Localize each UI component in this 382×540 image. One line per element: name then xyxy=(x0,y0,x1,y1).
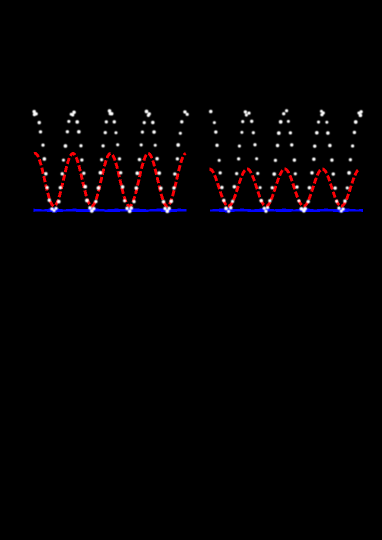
right panel: atom cluster in potential well 1 xyxy=(224,206,232,213)
right panel: atom chain (white dots) on lattice site 2 xyxy=(231,110,263,203)
left panel: atom cluster in potential well 4 xyxy=(163,207,171,213)
left panel: condensate density profile (blue line) xyxy=(33,208,186,213)
left panel: atom chain (white dots) on lattice site 2 xyxy=(57,110,89,203)
left panel: atom chain (white dots) on lattice site 3 xyxy=(94,109,126,203)
right panel: atom chain (white dots) on lattice site 1 xyxy=(209,110,225,202)
left panel: atom cluster in potential well 3 xyxy=(125,206,133,213)
right panel: atom chain (white dots) on lattice site 3 xyxy=(268,109,300,202)
right panel: atom cluster in potential well 4 xyxy=(337,206,344,212)
left panel: atom cluster in potential well 1 xyxy=(50,207,57,212)
left panel: atom chain (white dots) on lattice site 5 xyxy=(169,110,188,203)
left panel: atom cluster in potential well 2 xyxy=(88,206,95,213)
right panel: atom chain (white dots) on lattice site 4 xyxy=(307,110,339,204)
right panel: optical-lattice potential curve (red dashed sinusoid) xyxy=(209,169,360,206)
right panel: atom chain (white dots) on lattice site 5 xyxy=(343,110,363,203)
left panel: atom chain (white dots) on lattice site 4 xyxy=(132,110,165,204)
right panel: atom cluster in potential well 2 xyxy=(263,206,270,213)
left panel: optical-lattice potential curve (red dashed sinusoid) xyxy=(34,154,186,207)
left panel: atom chain (white dots) on lattice site 1 xyxy=(32,110,51,202)
right panel: condensate density profile (blue line) xyxy=(210,208,363,213)
right panel: atom cluster in potential well 3 xyxy=(300,207,307,213)
